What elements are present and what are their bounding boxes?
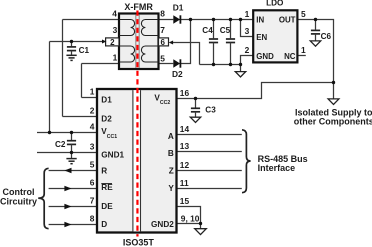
svg-text:8: 8 bbox=[90, 214, 95, 224]
wire chip D1 pin 1 bbox=[82, 97, 98, 99]
svg-text:Interface: Interface bbox=[258, 163, 296, 173]
svg-text:3: 3 bbox=[90, 142, 95, 152]
svg-text:X-FMR: X-FMR bbox=[124, 2, 153, 12]
wire XFMR pin2 center tap bbox=[50, 41, 104, 43]
svg-text:LDO: LDO bbox=[266, 0, 284, 8]
svg-text:A: A bbox=[168, 132, 174, 141]
wire vertical XFMR4 to chip D2 bbox=[62, 20, 64, 117]
svg-text:5: 5 bbox=[160, 54, 165, 64]
wire chip D2 pin 2 bbox=[63, 116, 98, 118]
XFMR pin 2 box bbox=[106, 38, 119, 47]
XFMR secondary upper winding bbox=[141, 20, 158, 36]
svg-text:GND: GND bbox=[256, 52, 274, 61]
wire XFMR pin1 bbox=[82, 63, 120, 65]
isolation barrier red dashed line bbox=[136, 11, 138, 237]
wire VCC1 pin 4 bbox=[37, 132, 97, 134]
svg-text:7: 7 bbox=[90, 196, 95, 206]
XFMR primary lower winding bbox=[119, 46, 135, 62]
wire LDO OUT bbox=[297, 20, 333, 99]
svg-text:C3: C3 bbox=[205, 105, 216, 114]
svg-text:EN: EN bbox=[256, 33, 267, 42]
wire RE pin 6 bbox=[49, 188, 97, 190]
svg-text:4: 4 bbox=[90, 122, 95, 132]
ground isolated rail bbox=[235, 65, 245, 77]
diode D2 bbox=[172, 59, 183, 79]
svg-text:other Components: other Components bbox=[294, 117, 372, 127]
diode D1 bbox=[173, 2, 184, 23]
svg-text:4: 4 bbox=[112, 9, 117, 19]
svg-text:DE: DE bbox=[101, 202, 113, 211]
capacitor C6 bbox=[311, 20, 332, 42]
svg-text:D1: D1 bbox=[101, 96, 112, 105]
wire isolated ground rail bbox=[200, 64, 241, 66]
svg-text:2: 2 bbox=[110, 38, 115, 47]
svg-text:3: 3 bbox=[245, 26, 250, 36]
wire LDO EN tie to IN bbox=[241, 20, 254, 37]
wire XFMR pin4 to corner bbox=[63, 19, 120, 21]
wire R pin 5 bbox=[49, 170, 97, 172]
wire GND2 pins 9 10 bbox=[177, 223, 201, 225]
svg-text:NC: NC bbox=[284, 52, 296, 61]
capacitor C5 bbox=[220, 20, 235, 65]
svg-text:D1: D1 bbox=[173, 2, 184, 12]
wire XFMR pin5 to D2 bbox=[159, 63, 174, 65]
isolated supply arrow bbox=[328, 99, 339, 105]
svg-text:14: 14 bbox=[180, 124, 190, 134]
LDO U1 bbox=[253, 0, 297, 62]
svg-text:RE: RE bbox=[101, 183, 113, 192]
wire D pin 8 bbox=[49, 224, 97, 226]
transformer X-FMR bbox=[119, 14, 159, 70]
wire LDO NC stub bbox=[297, 55, 305, 57]
svg-text:D2: D2 bbox=[101, 115, 112, 124]
ISO35T pin number labels right bbox=[180, 88, 200, 224]
capacitor C1 bbox=[67, 42, 90, 56]
RE overline bbox=[101, 183, 112, 185]
svg-text:D: D bbox=[101, 220, 107, 229]
control arrow DE in bbox=[64, 204, 71, 210]
brace control circuitry bbox=[38, 168, 48, 228]
svg-text:C1: C1 bbox=[79, 46, 90, 55]
wire B pin 13 bbox=[177, 151, 242, 153]
svg-text:1: 1 bbox=[113, 52, 118, 62]
ground C6 bbox=[310, 41, 320, 46]
wire XFMR pin6 tap to gnd rail bbox=[173, 43, 200, 65]
ISO35T inside labels left bbox=[101, 96, 124, 229]
capacitor C4 bbox=[202, 20, 218, 65]
svg-text:2: 2 bbox=[90, 106, 95, 116]
ground GND2 bbox=[195, 224, 207, 235]
wire VCC2 pin 16 bbox=[177, 83, 334, 99]
control arrow RE in bbox=[64, 186, 71, 192]
svg-text:D2: D2 bbox=[172, 69, 183, 79]
control arrow R out bbox=[64, 168, 71, 174]
svg-text:GND1: GND1 bbox=[101, 150, 124, 159]
capacitor C2 bbox=[55, 133, 76, 159]
svg-text:OUT: OUT bbox=[279, 15, 296, 24]
wire vertical tap to VCC1 bbox=[49, 42, 51, 133]
svg-text:1: 1 bbox=[301, 45, 306, 55]
svg-text:5: 5 bbox=[90, 160, 95, 170]
svg-text:Y: Y bbox=[168, 184, 174, 193]
brace RS-485 bbox=[242, 130, 251, 193]
ground earth C1 bbox=[66, 55, 76, 60]
wire DE pin 7 bbox=[49, 206, 97, 208]
wire Z pin 12 bbox=[177, 170, 242, 172]
ISO35T pin number labels left bbox=[90, 87, 95, 224]
capacitor C3 bbox=[191, 99, 216, 118]
ground earth C2 bbox=[66, 159, 76, 164]
svg-text:11: 11 bbox=[180, 178, 189, 188]
svg-text:B: B bbox=[168, 149, 174, 158]
svg-text:7: 7 bbox=[160, 25, 165, 35]
svg-text:3: 3 bbox=[113, 25, 118, 35]
XFMR pin 2 arrow bbox=[102, 40, 106, 44]
svg-text:C4: C4 bbox=[202, 26, 213, 35]
wire LDO GND to rail bbox=[241, 56, 254, 65]
svg-text:1: 1 bbox=[245, 9, 250, 19]
svg-text:8: 8 bbox=[160, 9, 165, 19]
wire A pin 14 bbox=[177, 134, 242, 136]
ISO35T U2 bbox=[97, 89, 177, 247]
svg-text:15: 15 bbox=[180, 196, 190, 206]
svg-text:2: 2 bbox=[245, 45, 250, 55]
XFMR secondary lower winding bbox=[141, 46, 158, 62]
wire GND1 pin 3 bbox=[37, 152, 97, 154]
svg-text:16: 16 bbox=[180, 88, 190, 98]
svg-text:R: R bbox=[101, 166, 107, 175]
wire D1 cathode to LDO IN rail bbox=[180, 19, 253, 21]
svg-text:ISO35T: ISO35T bbox=[123, 237, 155, 247]
svg-text:C2: C2 bbox=[55, 140, 66, 149]
svg-text:12: 12 bbox=[180, 160, 190, 170]
svg-text:C6: C6 bbox=[321, 32, 332, 41]
wire pin 15 to gnd bbox=[177, 207, 201, 224]
ISO35T inside labels right bbox=[151, 94, 174, 229]
svg-text:5: 5 bbox=[301, 9, 306, 19]
wire vertical XFMR1 to chip D1 bbox=[81, 64, 83, 98]
XFMR pin 6 box bbox=[159, 38, 169, 47]
svg-text:9, 10: 9, 10 bbox=[181, 213, 200, 223]
svg-text:Z: Z bbox=[169, 166, 174, 175]
svg-text:IN: IN bbox=[256, 15, 264, 24]
XFMR pin 6 arrow bbox=[169, 41, 173, 45]
svg-text:GND2: GND2 bbox=[151, 220, 174, 229]
svg-text:6: 6 bbox=[90, 178, 95, 188]
svg-text:C5: C5 bbox=[220, 26, 231, 35]
control arrow D in bbox=[64, 222, 71, 228]
svg-text:1: 1 bbox=[90, 87, 95, 97]
wire Y pin 11 bbox=[177, 188, 242, 190]
ground C3 bbox=[190, 117, 200, 122]
XFMR primary upper winding bbox=[119, 20, 135, 36]
wire XFMR pin8 to D1 bbox=[159, 19, 174, 21]
wire D2 cathode to rail bbox=[180, 20, 190, 64]
svg-text:6: 6 bbox=[160, 38, 165, 47]
svg-text:13: 13 bbox=[180, 141, 190, 151]
svg-text:Circuitry: Circuitry bbox=[0, 196, 37, 206]
